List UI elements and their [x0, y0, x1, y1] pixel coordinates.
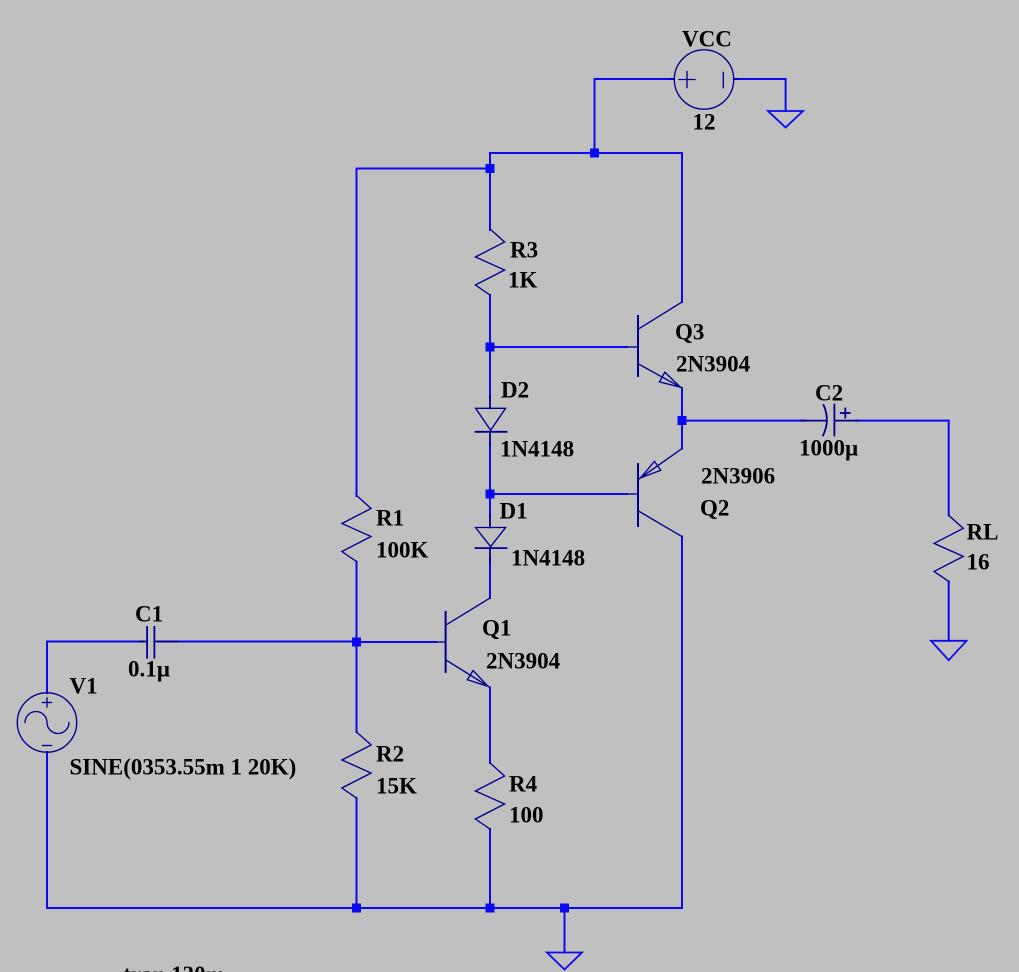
wire R1 vertical rail: [356, 169, 358, 497]
wire base node to R2: [356, 642, 358, 732]
wire V1 top to C1: [47, 641, 143, 643]
ground (bottom): [547, 953, 582, 970]
wire C1 right to base node: [158, 641, 357, 643]
wire Q3 emitter to output node: [681, 388, 683, 421]
svg-text:V1: V1: [70, 674, 98, 699]
svg-text:1N4148: 1N4148: [511, 546, 585, 571]
wire C2 to RL corner: [856, 421, 949, 516]
wire node B to D1: [489, 494, 491, 517]
diode D2: [476, 396, 507, 445]
svg-text:16: 16: [967, 550, 990, 575]
svg-text:C2: C2: [815, 381, 843, 406]
junction R1 top: [486, 164, 495, 173]
junction ground stub rail: [560, 904, 569, 913]
svg-text:100K: 100K: [376, 538, 429, 563]
wire node to D2: [489, 347, 491, 398]
svg-text:SINE(0353.55m 1 20K): SINE(0353.55m 1 20K): [70, 755, 297, 780]
ground (VCC): [768, 111, 803, 128]
svg-text:D2: D2: [501, 378, 529, 403]
svg-text:R4: R4: [509, 772, 538, 797]
wire Q1 emitter to R4: [489, 688, 491, 764]
wire Q3 collector vertical: [681, 153, 683, 302]
resistor R2: [342, 732, 371, 798]
junction base node (C1/R1/R2/Q1): [352, 638, 361, 647]
svg-text:2N3906: 2N3906: [701, 464, 775, 489]
svg-text:1N4148: 1N4148: [500, 437, 574, 462]
resistor R4: [475, 763, 504, 829]
wire V1 top lead: [46, 642, 48, 694]
resistor RL: [934, 515, 963, 581]
wire VCC right to ground: [735, 79, 786, 111]
ground (RL): [931, 641, 967, 660]
svg-text:2N3904: 2N3904: [486, 649, 561, 674]
wire Q1 base: [357, 641, 437, 643]
svg-text:R3: R3: [510, 238, 538, 263]
svg-text:100: 100: [509, 803, 544, 828]
wire R4 bottom to rail: [489, 829, 491, 908]
resistor R3: [475, 229, 504, 295]
junction R4 bottom rail: [486, 904, 495, 913]
svg-text:C1: C1: [135, 602, 163, 627]
svg-text:R1: R1: [376, 506, 404, 531]
wire VCC left to tap corner: [595, 78, 674, 80]
wire R3 bottom to node: [489, 295, 491, 347]
wire V1 bottom lead: [46, 752, 48, 908]
resistor R1: [342, 496, 371, 562]
svg-text:Q2: Q2: [700, 496, 729, 521]
junction R2 bottom rail: [352, 904, 361, 913]
junction output node: [678, 416, 687, 425]
wire VCC tap vertical: [594, 79, 596, 153]
voltage source V1 (sine): [17, 693, 76, 752]
svg-text:1K: 1K: [508, 268, 538, 293]
junction VCC tap: [590, 149, 599, 158]
wire Q2 base: [490, 493, 627, 495]
svg-text:Q1: Q1: [482, 616, 511, 641]
svg-text:15K: 15K: [376, 774, 417, 799]
capacitor C2 (polarized): [801, 405, 858, 436]
wire D2 to node B: [489, 443, 491, 494]
wire R1 top horizontal y=168.5: [357, 168, 491, 170]
voltage source VCC: [671, 50, 737, 109]
wire R1 bottom to base node: [356, 562, 358, 643]
wire bottom rail: [47, 907, 682, 909]
svg-text:.tran 130m: .tran 130m: [118, 962, 225, 972]
wire Q2 collector vertical: [681, 537, 683, 908]
wire output node to C2: [682, 420, 805, 422]
svg-text:12: 12: [693, 110, 716, 135]
diode D1: [476, 515, 507, 561]
wire x=490 top to R3: [489, 153, 491, 230]
svg-text:R2: R2: [376, 742, 404, 767]
wire R2 bottom to rail: [356, 798, 358, 908]
wire D1 to Q1 collector: [489, 559, 491, 598]
svg-text:0.1µ: 0.1µ: [128, 657, 170, 682]
wire Q3 base: [490, 346, 627, 348]
wire output node to Q2 emitter: [681, 421, 683, 449]
transistor Q2 (PNP): [627, 449, 682, 537]
svg-text:1000µ: 1000µ: [799, 436, 858, 461]
wire ground stub bottom: [564, 908, 566, 953]
svg-text:Q3: Q3: [675, 320, 704, 345]
svg-text:RL: RL: [967, 520, 999, 545]
transistor Q3 (NPN): [627, 302, 682, 388]
junction node A (R3/D2/Q3 base): [486, 343, 495, 352]
svg-text:2N3904: 2N3904: [676, 352, 751, 377]
svg-text:D1: D1: [500, 499, 528, 524]
wire RL to ground: [948, 581, 950, 640]
junction node B (D2/D1/Q2 base): [486, 490, 495, 499]
capacitor C1: [140, 627, 177, 658]
wire top rail y=153: [490, 152, 682, 154]
transistor Q1 (NPN): [436, 598, 490, 688]
svg-text:VCC: VCC: [682, 27, 732, 52]
